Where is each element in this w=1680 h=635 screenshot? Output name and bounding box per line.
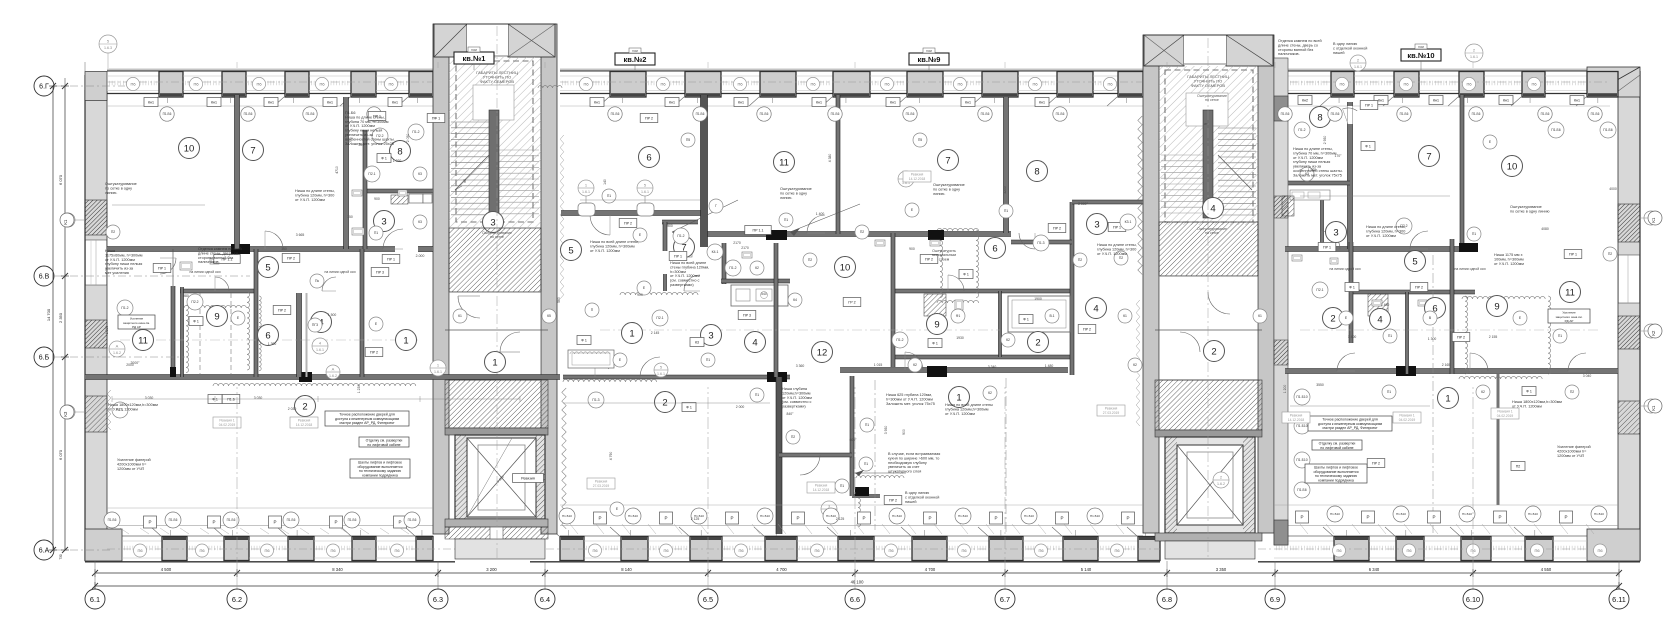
svg-text:ПР 2: ПР 2: [1457, 335, 1465, 339]
label box ПР 1: [382, 255, 400, 264]
label box Ф 1: [189, 317, 203, 326]
label box ПР 2: [1078, 325, 1096, 334]
svg-text:ГР 2: ГР 2: [848, 300, 855, 304]
svg-text:h=300мм от У.Ч.П. 1200мм: h=300мм от У.Ч.П. 1200мм: [886, 397, 933, 401]
label circle П1: [860, 418, 874, 432]
label circle К3: [413, 215, 427, 229]
svg-text:6.5: 6.5: [703, 595, 713, 604]
svg-text:П5: П5: [918, 138, 922, 142]
label box ПР 2: [884, 496, 902, 505]
core2 dense hatch block: [1159, 222, 1258, 276]
svg-text:Пк: Пк: [315, 279, 319, 283]
core2 below shaft: [1155, 533, 1262, 541]
top band pier: [1522, 72, 1545, 98]
label circle П1.Б6: [404, 512, 420, 528]
label circle П6: [1103, 77, 1116, 90]
view marker 5/1.6.1: [637, 180, 653, 196]
thin partition lower right apt10: [1497, 374, 1499, 505]
svg-text:8: 8: [1034, 166, 1039, 177]
svg-text:2000: 2000: [126, 363, 134, 367]
wall V1 (rooms 10/7): [235, 95, 240, 249]
svg-text:150: 150: [347, 215, 353, 219]
label circle П6: [953, 77, 966, 90]
label circle К2: [750, 261, 764, 275]
revision box: [1097, 405, 1125, 416]
bottom band pier: [1138, 537, 1160, 561]
svg-text:П6: П6: [660, 81, 666, 86]
label circle П6: [733, 77, 746, 90]
label circle П1.Б6: [1053, 107, 1067, 121]
svg-text:П2: П2: [791, 435, 795, 439]
svg-text:П1.Б6: П1.Б6: [163, 112, 172, 116]
view marker 7/1.6.1: [898, 171, 914, 187]
svg-text:Кн1: Кн1: [594, 100, 600, 104]
label circle П1.2: [408, 124, 424, 140]
label box Р: [924, 512, 937, 524]
svg-text:Кн1: Кн1: [738, 100, 744, 104]
svg-text:П1.2: П1.2: [121, 306, 128, 310]
svg-text:К4: К4: [793, 298, 797, 302]
svg-text:Р: Р: [1432, 515, 1435, 520]
room 1 circle: [949, 387, 970, 408]
svg-text:1.6.2: 1.6.2: [1217, 482, 1225, 486]
svg-text:Г: Г: [715, 204, 717, 208]
svg-text:1 230: 1 230: [357, 385, 361, 394]
label circle П6: [1028, 77, 1041, 90]
wall V8: [360, 249, 364, 377]
label box Р: [269, 516, 282, 528]
svg-text:П6: П6: [1336, 548, 1342, 553]
label box П2: [1511, 462, 1525, 471]
core2 stair well: [1159, 66, 1258, 225]
room 8 circle: [1310, 107, 1331, 128]
svg-text:от У.Ч.П. 1200мм: от У.Ч.П. 1200мм: [590, 249, 620, 253]
svg-text:особенностей стены шахты.: особенностей стены шахты.: [1293, 169, 1343, 173]
svg-text:В случае, если встраиваемая: В случае, если встраиваемая: [888, 452, 940, 456]
svg-text:П1: П1: [607, 194, 611, 198]
svg-text:Ф 1: Ф 1: [193, 319, 199, 323]
svg-text:1 400: 1 400: [816, 212, 825, 216]
wall V2 (room 7/8): [344, 97, 349, 249]
svg-text:П1.3: П1.3: [592, 398, 599, 402]
svg-text:1.6.1: 1.6.1: [657, 372, 665, 376]
svg-text:П1.Б6: П1.Б6: [408, 518, 417, 522]
svg-text:04.02.2019: 04.02.2019: [1399, 418, 1416, 422]
label circle П1: [999, 204, 1013, 218]
label box Р: [858, 512, 871, 524]
svg-text:6: 6: [646, 152, 651, 163]
svg-text:2 125: 2 125: [691, 517, 700, 521]
label circle П1.Б6: [1548, 122, 1564, 138]
svg-text:П6: П6: [388, 81, 394, 86]
svg-text:П1.2: П1.2: [896, 338, 903, 342]
svg-text:ПР 2: ПР 2: [645, 116, 653, 120]
svg-text:П1.Б6: П1.Б6: [287, 518, 296, 522]
core1 elevator shaft: [455, 435, 545, 519]
view marker 2/1.6.1: [1465, 44, 1483, 62]
svg-text:П2: П2: [1119, 256, 1123, 260]
svg-text:от У.Ч.П. 1200мм: от У.Ч.П. 1200мм: [108, 407, 138, 411]
svg-text:наличников.: наличников.: [1278, 52, 1300, 56]
svg-text:2170: 2170: [741, 246, 749, 250]
wall V21 right: [1406, 292, 1409, 374]
svg-text:Кн1: Кн1: [148, 100, 154, 104]
svg-text:П6: П6: [810, 81, 816, 86]
label box Ф 1: [377, 154, 391, 163]
label circle П1.Б6: [1294, 482, 1310, 498]
room 7 circle: [243, 140, 264, 161]
scallops below wall H3: [213, 383, 416, 386]
svg-text:развертками): развертками): [670, 283, 694, 287]
svg-text:В одну линию: В одну линию: [905, 491, 929, 495]
svg-text:по сетке в одну: по сетке в одну: [780, 191, 807, 195]
svg-text:П1: П1: [840, 484, 844, 488]
svg-text:6.8: 6.8: [1162, 595, 1172, 604]
label circle П1.2: [673, 228, 689, 244]
svg-text:П1.Б6: П1.Б6: [906, 112, 915, 116]
svg-text:Оштукатуривание: Оштукатуривание: [1510, 205, 1542, 209]
svg-text:Ревизия: Ревизия: [595, 480, 608, 484]
svg-text:П6: П6: [737, 81, 743, 86]
svg-text:линию.: линию.: [105, 191, 117, 195]
svg-text:по сетке в одну: по сетке в одну: [105, 186, 132, 190]
svg-text:8: 8: [397, 146, 402, 157]
label circle К3: [61, 405, 75, 419]
label box ПР 3: [371, 268, 389, 277]
revision box: [290, 417, 318, 428]
top band pier: [760, 72, 796, 98]
svg-text:развертками): развертками): [782, 405, 806, 409]
svg-text:на линии одной оси: на линии одной оси: [189, 270, 220, 274]
label circle Е: [905, 203, 919, 217]
label box Р: [1296, 511, 1309, 523]
svg-text:27.03.2019: 27.03.2019: [1103, 411, 1120, 415]
apt2 kitchen counter: [731, 285, 788, 306]
room 3 circle: [374, 211, 395, 232]
svg-text:5: 5: [568, 245, 573, 256]
interior dim chain below top band: [112, 204, 205, 206]
label circle К1: [61, 213, 75, 227]
label circle П6: [1467, 544, 1480, 557]
wall bath mid: [893, 355, 1072, 359]
lintel black H4b mid: [928, 230, 944, 240]
svg-text:560: 560: [557, 297, 561, 303]
svg-text:П2: П2: [1078, 258, 1082, 262]
svg-text:РД АР: РД АР: [132, 325, 141, 329]
label box К3: [690, 338, 704, 347]
wall H mid bath9 top: [891, 289, 1072, 293]
room 4 circle: [745, 332, 766, 353]
label box Ф 1: [1019, 315, 1033, 324]
bottom band pier: [765, 537, 797, 561]
svg-text:по сетке в одну: по сетке в одну: [933, 187, 960, 191]
svg-text:ПР 2: ПР 2: [370, 350, 378, 354]
svg-text:А: А: [332, 367, 335, 372]
svg-text:Ревизия: Ревизия: [1105, 407, 1118, 411]
svg-text:Р: Р: [598, 516, 601, 521]
svg-text:4200х1000мм h=: 4200х1000мм h=: [117, 462, 147, 466]
svg-text:6: 6: [265, 330, 270, 341]
svg-text:П6: П6: [1403, 81, 1409, 86]
label circle П1.Б10: [823, 508, 839, 524]
view marker А/1.6.2: [326, 365, 340, 379]
label circle П6: [660, 544, 673, 557]
svg-text:нишей: нишей: [1333, 51, 1345, 55]
label box Ф 1: [577, 336, 591, 345]
svg-text:К2: К2: [755, 266, 759, 270]
core2 top corner blocks: [1144, 35, 1184, 66]
svg-text:П1.Б10: П1.Б10: [1462, 512, 1472, 516]
svg-text:ПГ3: ПГ3: [312, 323, 318, 327]
svg-text:П1: П1: [865, 423, 869, 427]
svg-text:П6: П6: [1531, 81, 1537, 86]
svg-text:6.4: 6.4: [540, 595, 550, 604]
svg-text:П1.Б10: П1.Б10: [1296, 395, 1307, 399]
lintel black H3: [299, 372, 312, 382]
svg-text:глубина 120мм, h=300: глубина 120мм, h=300: [1097, 247, 1136, 251]
label circle П1.Б6: [283, 512, 299, 528]
svg-text:6.6: 6.6: [850, 595, 860, 604]
svg-text:Оштукатуривание: Оштукатуривание: [105, 182, 137, 186]
svg-text:Р: Р: [398, 520, 401, 525]
svg-text:1.6.2: 1.6.2: [113, 351, 121, 355]
svg-text:14.12.2018: 14.12.2018: [296, 423, 313, 427]
svg-text:ПР 1: ПР 1: [1113, 225, 1121, 229]
svg-text:П6: П6: [663, 548, 669, 553]
label box Кн1: [590, 98, 604, 107]
svg-text:6.9: 6.9: [1270, 595, 1280, 604]
label box Р: [594, 512, 607, 524]
svg-text:ПР 2: ПР 2: [287, 256, 295, 260]
svg-text:4000: 4000: [1609, 187, 1617, 191]
wall V10: [774, 243, 778, 377]
svg-text:770: 770: [349, 137, 353, 143]
apartment box кв.№1: [454, 52, 494, 64]
room 1 circle: [622, 323, 643, 344]
svg-text:Ниша 1800х120мм,h=300мм: Ниша 1800х120мм,h=300мм: [108, 403, 158, 407]
view marker 1/1.6.1: [430, 360, 446, 376]
svg-text:11: 11: [138, 335, 148, 346]
revision box: [1282, 412, 1310, 423]
label box Кн1: [665, 98, 679, 107]
svg-text:ПР 1: ПР 1: [1323, 245, 1331, 249]
svg-text:1.6.1: 1.6.1: [434, 370, 442, 374]
svg-text:Кн1: Кн1: [1378, 98, 1384, 102]
svg-text:Р: Р: [862, 516, 865, 521]
note box: [1312, 440, 1362, 450]
svg-text:170°: 170°: [1334, 154, 1342, 158]
bottom band pier: [912, 537, 947, 561]
svg-text:200°: 200°: [358, 143, 366, 147]
svg-text:3: 3: [381, 216, 386, 227]
svg-text:кв.№1: кв.№1: [463, 54, 486, 63]
svg-text:П1.Б6: П1.Б6: [1400, 112, 1409, 116]
label box Кн1: [144, 98, 158, 107]
label circle К1: [1644, 399, 1658, 413]
svg-text:П6: П6: [814, 548, 820, 553]
label box Кн1: [734, 98, 748, 107]
svg-text:П6: П6: [592, 548, 598, 553]
label circle Е: [1513, 311, 1527, 325]
label circle П6: [735, 544, 748, 557]
svg-text:Заложить мет. уголок 75х75: Заложить мет. уголок 75х75: [886, 402, 935, 406]
svg-text:П1.Б6: П1.Б6: [345, 111, 356, 115]
top band pier: [159, 72, 183, 98]
svg-text:6.В: 6.В: [39, 274, 50, 281]
svg-text:П6: П6: [199, 548, 205, 553]
svg-text:П6: П6: [1470, 548, 1476, 553]
bottom-left corner block: [85, 529, 122, 561]
room 5 circle: [1405, 251, 1426, 272]
svg-text:4 790: 4 790: [609, 452, 613, 461]
svg-text:глубина 120мм, h=300: глубина 120мм, h=300: [295, 193, 334, 197]
core2 elevator shaft: [1165, 437, 1255, 533]
svg-text:глубина 70 мм, h=300мм: глубина 70 мм, h=300мм: [1293, 151, 1337, 155]
svg-text:Кн1: Кн1: [1039, 100, 1045, 104]
note box: [1308, 416, 1392, 431]
svg-text:П1: П1: [784, 218, 788, 222]
svg-text:ит: ит: [1204, 122, 1208, 126]
core1 top door gap: [467, 24, 508, 56]
svg-text:П6: П6: [264, 548, 270, 553]
svg-text:6: 6: [992, 243, 997, 254]
wall H8 right: [1349, 290, 1475, 294]
label box Р: [144, 516, 157, 528]
svg-text:(см. совместно с: (см. совместно с: [670, 279, 700, 283]
svg-text:4200х1000мм h=: 4200х1000мм h=: [1557, 449, 1587, 453]
label circle П1.2: [725, 260, 741, 276]
label circle П6: [1335, 77, 1348, 90]
svg-text:П6: П6: [330, 548, 336, 553]
svg-text:10: 10: [184, 143, 195, 154]
svg-text:П6: П6: [130, 81, 136, 86]
svg-text:Кн1: Кн1: [392, 100, 398, 104]
label box ПР 2: [1048, 224, 1066, 233]
svg-text:2 125: 2 125: [836, 517, 845, 521]
label circle П2.1: [1312, 282, 1328, 298]
svg-text:наличников.: наличников.: [198, 260, 220, 264]
svg-text:Ниша 625 глубина 120мм,: Ниша 625 глубина 120мм,: [886, 393, 932, 397]
label circle К5: [542, 309, 556, 323]
room 1 circle: [485, 352, 506, 373]
label box Р: [1560, 511, 1573, 523]
svg-text:Кн1: Кн1: [816, 100, 822, 104]
label box Р: [990, 512, 1003, 524]
svg-text:кухня по ширине >600 мм, то: кухня по ширине >600 мм, то: [888, 456, 939, 460]
wardrobe room 2: [1008, 296, 1070, 332]
bottom band pier: [621, 537, 648, 561]
svg-text:К5: К5: [547, 314, 551, 318]
svg-text:П6: П6: [193, 81, 199, 86]
view marker 2/1.6.2: [1213, 472, 1229, 488]
svg-text:Р: Р: [1126, 516, 1129, 521]
room 4 circle: [311, 312, 332, 333]
label circle П2.2: [187, 294, 203, 310]
label circle Ф1: [951, 309, 965, 323]
room 11 circle: [774, 152, 795, 173]
svg-text:ПР 2: ПР 2: [1415, 285, 1423, 289]
svg-text:П6: П6: [738, 548, 744, 553]
label box Р: [1056, 512, 1069, 524]
svg-text:1900: 1900: [1034, 297, 1042, 301]
svg-text:ПР 3: ПР 3: [376, 270, 384, 274]
svg-text:Р: Р: [1060, 516, 1063, 521]
svg-text:П1.Б6: П1.Б6: [169, 518, 178, 522]
core1 elevator hatch zone: [445, 380, 548, 428]
label circle П6: [811, 544, 824, 557]
room 3 circle: [483, 212, 504, 233]
svg-text:Ф 1: Ф 1: [381, 156, 387, 160]
svg-text:К2: К2: [988, 391, 992, 395]
apt2 bathroom walls: [662, 220, 698, 224]
label box ПР 2: [640, 114, 658, 123]
label box Кн1: [388, 98, 402, 107]
label circle Е: [613, 353, 627, 367]
lintel black H4: [766, 230, 787, 240]
svg-text:П6: П6: [1114, 548, 1120, 553]
svg-text:04.02.2019: 04.02.2019: [1497, 414, 1514, 418]
shaft hatch right2: [1282, 196, 1294, 216]
top-right corner block with diagonals: [1587, 67, 1640, 97]
svg-text:пб: пб: [463, 179, 467, 183]
svg-text:К4.1: К4.1: [712, 250, 719, 254]
svg-text:Ниша 1800х120мм,h=300мм: Ниша 1800х120мм,h=300мм: [1512, 400, 1562, 404]
svg-text:по сетке: по сетке: [1205, 98, 1219, 102]
label circle П1: [602, 189, 616, 203]
svg-text:П6: П6: [1534, 548, 1540, 553]
label box ПР 1: [1108, 223, 1126, 232]
wall V13: [1004, 97, 1009, 233]
svg-text:В.1: В.1: [1049, 314, 1054, 318]
svg-text:Ниша по длине стены,: Ниша по длине стены,: [295, 189, 335, 193]
label circle П1.Б6: [1538, 107, 1552, 121]
svg-text:Кн1: Кн1: [268, 100, 274, 104]
svg-text:6 070: 6 070: [58, 174, 63, 185]
svg-text:П1.Б10: П1.Б10: [958, 514, 968, 518]
view marker 3/1.6.1: [821, 501, 837, 517]
svg-text:П1.Б6: П1.Б6: [1591, 112, 1600, 116]
svg-text:длине стены, дверь со: длине стены, дверь со: [198, 251, 238, 255]
svg-text:Кн2: Кн2: [1302, 98, 1308, 102]
svg-text:К3: К3: [63, 411, 68, 417]
label circle П1: [1553, 329, 1567, 343]
top band pier: [685, 72, 721, 98]
svg-text:ПР 1: ПР 1: [1365, 103, 1373, 107]
svg-text:П1.2: П1.2: [677, 234, 684, 238]
svg-text:2 145: 2 145: [651, 331, 660, 335]
svg-text:1: 1: [956, 392, 961, 403]
svg-text:2 000: 2 000: [736, 405, 745, 409]
wall V6: [254, 249, 258, 377]
label circle П: [585, 303, 599, 317]
svg-text:2: 2: [302, 401, 307, 412]
svg-text:стороны ванной без: стороны ванной без: [198, 256, 234, 260]
core1 right scallop row: [538, 86, 562, 88]
svg-text:Ниша по длине стены,: Ниша по длине стены,: [1293, 147, 1333, 151]
label box ПР 2: [1410, 283, 1428, 292]
svg-text:04.02.2019: 04.02.2019: [219, 423, 236, 427]
svg-text:Отделка камнем по всей: Отделка камнем по всей: [198, 247, 242, 251]
svg-text:120мм,h=300мм: 120мм,h=300мм: [782, 391, 811, 395]
svg-text:2 350: 2 350: [58, 312, 63, 323]
svg-text:К3: К3: [418, 172, 422, 176]
label circle П1.3: [1033, 235, 1049, 251]
label circle П6: [1333, 544, 1346, 557]
top band pier: [351, 72, 376, 98]
top band pier: [1587, 72, 1618, 98]
svg-text:Ревизия: Ревизия: [298, 419, 311, 423]
svg-text:Оштукатуривание: Оштукатуривание: [780, 187, 812, 191]
